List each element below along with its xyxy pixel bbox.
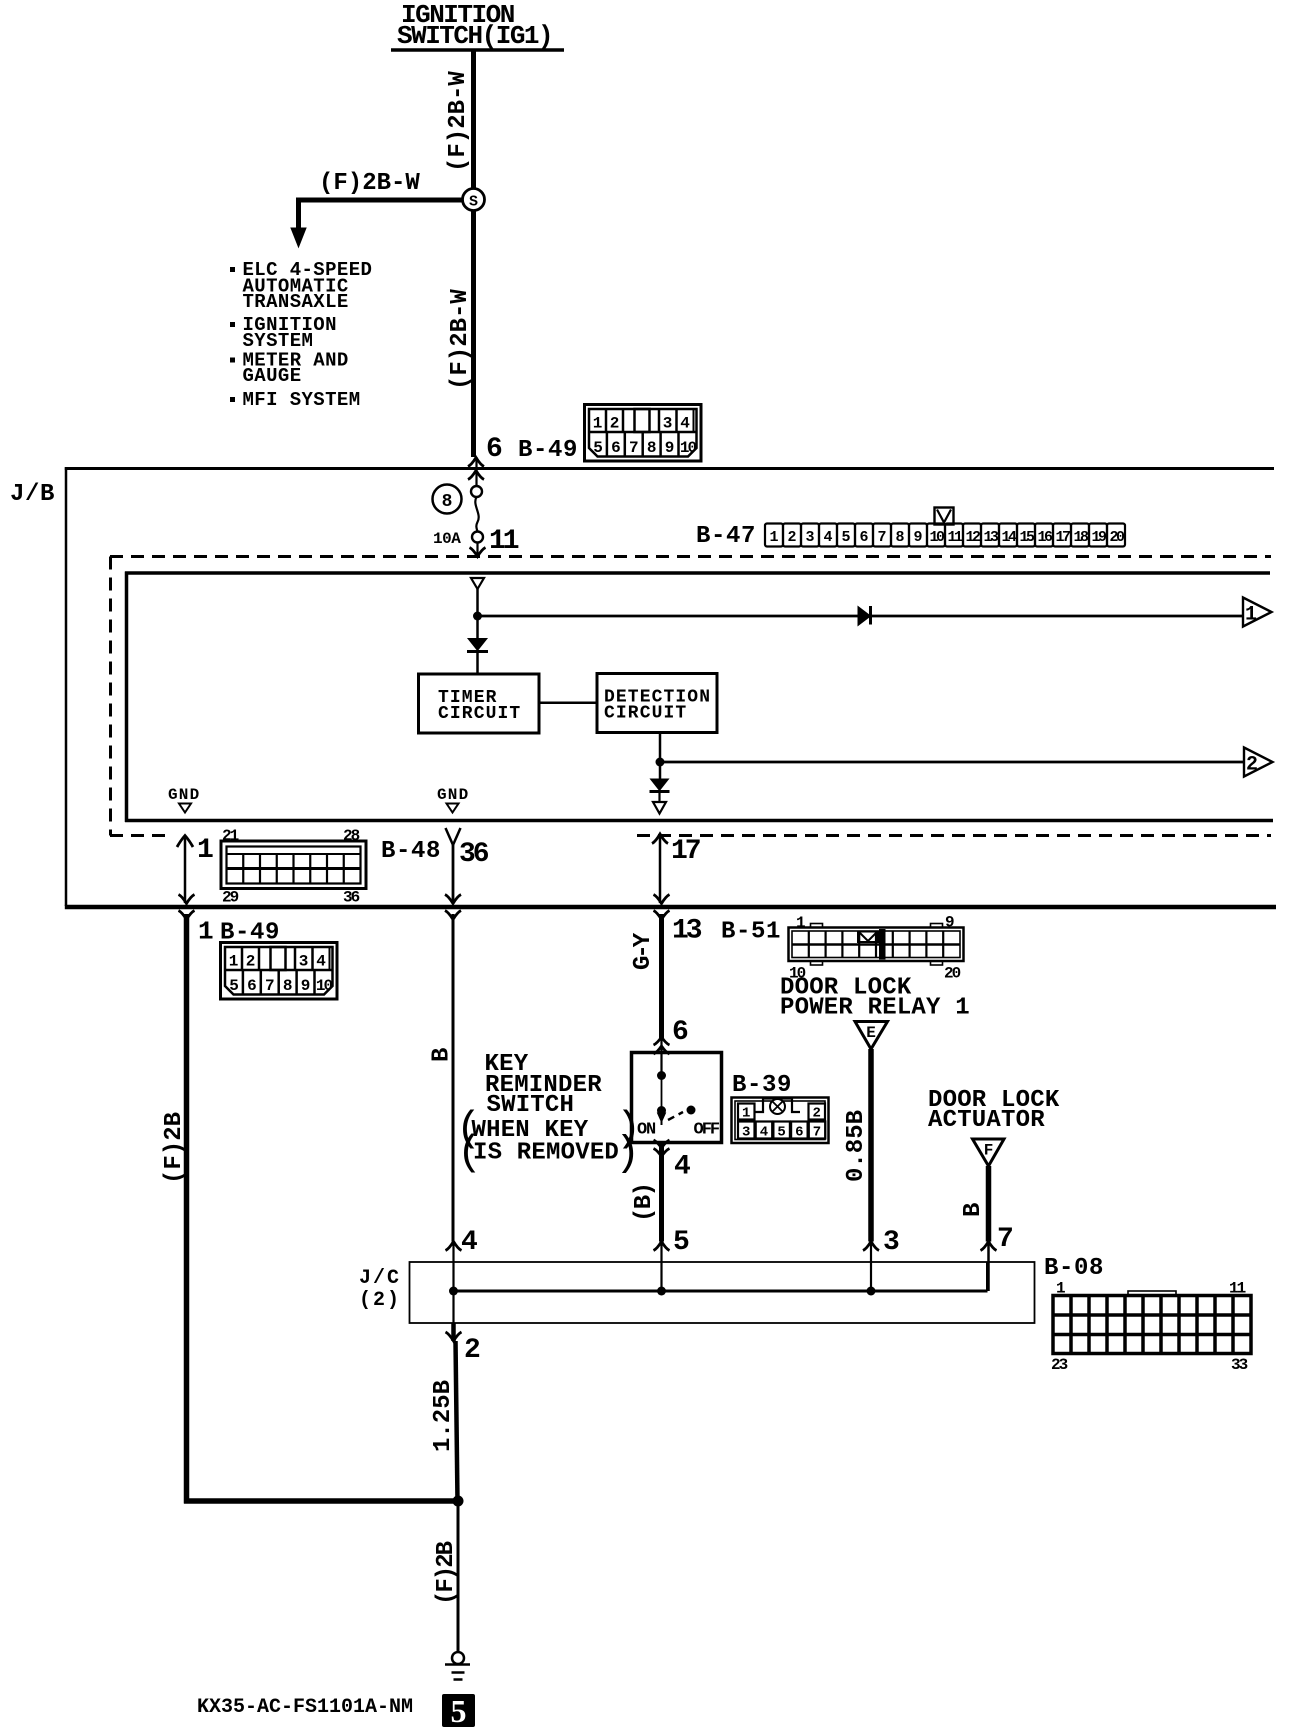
svg-text:J/C: J/C: [359, 1267, 401, 1290]
svg-text:SWITCH(IG1): SWITCH(IG1): [397, 21, 552, 51]
svg-text:5: 5: [673, 1227, 690, 1258]
svg-text:3: 3: [742, 1125, 750, 1141]
svg-text:1: 1: [1245, 604, 1257, 627]
svg-text:5: 5: [451, 1693, 467, 1729]
svg-text:B-47: B-47: [696, 523, 756, 550]
svg-text:): ): [615, 1130, 640, 1178]
svg-text:B-49: B-49: [518, 437, 578, 464]
svg-text:2: 2: [787, 529, 796, 546]
svg-text:6: 6: [795, 1125, 803, 1141]
svg-text:28: 28: [343, 827, 360, 845]
svg-text:10A: 10A: [433, 530, 461, 548]
svg-text:2: 2: [1246, 754, 1258, 777]
svg-text:21: 21: [222, 827, 239, 845]
svg-text:23: 23: [1051, 1356, 1068, 1374]
svg-text:(F)2B: (F)2B: [433, 1541, 460, 1605]
svg-text:B: B: [960, 1203, 987, 1217]
svg-text:2: 2: [812, 1106, 820, 1122]
svg-text:6: 6: [672, 1017, 689, 1048]
svg-text:1: 1: [198, 917, 214, 947]
svg-text:11: 11: [489, 526, 519, 557]
svg-text:B-51: B-51: [721, 919, 781, 946]
svg-text:3: 3: [805, 529, 814, 546]
svg-text:(F)2B: (F)2B: [161, 1112, 188, 1184]
svg-text:4: 4: [461, 1227, 478, 1258]
svg-text:6: 6: [859, 529, 868, 546]
svg-text:2: 2: [464, 1335, 481, 1366]
svg-text:3: 3: [883, 1227, 900, 1258]
svg-text:17: 17: [1055, 529, 1070, 546]
svg-text:POWER RELAY 1: POWER RELAY 1: [780, 995, 970, 1022]
svg-text:B: B: [429, 1048, 456, 1062]
svg-text:7: 7: [997, 1224, 1014, 1255]
svg-text:4: 4: [760, 1125, 768, 1141]
svg-text:7: 7: [877, 529, 886, 546]
svg-text:1.25B: 1.25B: [430, 1380, 457, 1452]
svg-text:13: 13: [672, 916, 702, 947]
svg-text:20: 20: [944, 965, 961, 983]
svg-text:F: F: [984, 1142, 994, 1160]
svg-text:17: 17: [671, 836, 700, 867]
svg-text:9: 9: [913, 529, 922, 546]
svg-text:4: 4: [674, 1152, 691, 1183]
svg-text:B-49: B-49: [220, 920, 280, 947]
svg-text:J/B: J/B: [10, 481, 55, 508]
svg-text:7: 7: [813, 1125, 821, 1141]
svg-text:(F)2B-W: (F)2B-W: [319, 170, 420, 197]
svg-text:G-Y: G-Y: [630, 932, 657, 970]
svg-text:4: 4: [823, 529, 832, 546]
svg-text:E: E: [866, 1024, 876, 1042]
svg-text:(: (: [457, 1129, 482, 1177]
svg-text:0.85B: 0.85B: [843, 1110, 870, 1182]
svg-text:ACTUATOR: ACTUATOR: [928, 1107, 1045, 1134]
svg-text:(2): (2): [359, 1289, 401, 1312]
svg-text:6: 6: [486, 434, 503, 465]
svg-text:33: 33: [1231, 1356, 1248, 1374]
svg-text:CIRCUIT: CIRCUIT: [438, 704, 521, 724]
svg-text:36: 36: [343, 889, 360, 907]
svg-text:(F)2B-W: (F)2B-W: [447, 289, 474, 390]
svg-text:GND: GND: [168, 786, 200, 804]
svg-text:KX35-AC-FS1101A-NM: KX35-AC-FS1101A-NM: [197, 1696, 413, 1719]
svg-text:5: 5: [841, 529, 850, 546]
svg-text:36: 36: [459, 839, 489, 870]
svg-text:S: S: [469, 194, 478, 211]
svg-text:B-08: B-08: [1044, 1255, 1104, 1282]
svg-text:1: 1: [197, 835, 214, 866]
svg-text:8: 8: [442, 492, 453, 512]
svg-text:29: 29: [222, 889, 239, 907]
svg-text:TRANSAXLE: TRANSAXLE: [243, 291, 349, 313]
svg-text:8: 8: [895, 529, 904, 546]
svg-text:SWITCH: SWITCH: [487, 1092, 575, 1119]
svg-text:MFI SYSTEM: MFI SYSTEM: [243, 389, 361, 411]
svg-text:(B): (B): [631, 1184, 658, 1222]
svg-text:B-48: B-48: [381, 838, 441, 865]
svg-text:CIRCUIT: CIRCUIT: [604, 704, 687, 724]
svg-text:(F)2B-W: (F)2B-W: [445, 71, 472, 172]
svg-text:1: 1: [769, 529, 778, 546]
svg-text:GAUGE: GAUGE: [243, 365, 302, 387]
svg-text:5: 5: [777, 1125, 785, 1141]
svg-text:IS REMOVED: IS REMOVED: [473, 1140, 619, 1167]
svg-text:1: 1: [742, 1106, 750, 1122]
svg-text:GND: GND: [437, 786, 469, 804]
svg-text:B-39: B-39: [732, 1072, 792, 1099]
svg-text:OFF: OFF: [694, 1121, 720, 1140]
